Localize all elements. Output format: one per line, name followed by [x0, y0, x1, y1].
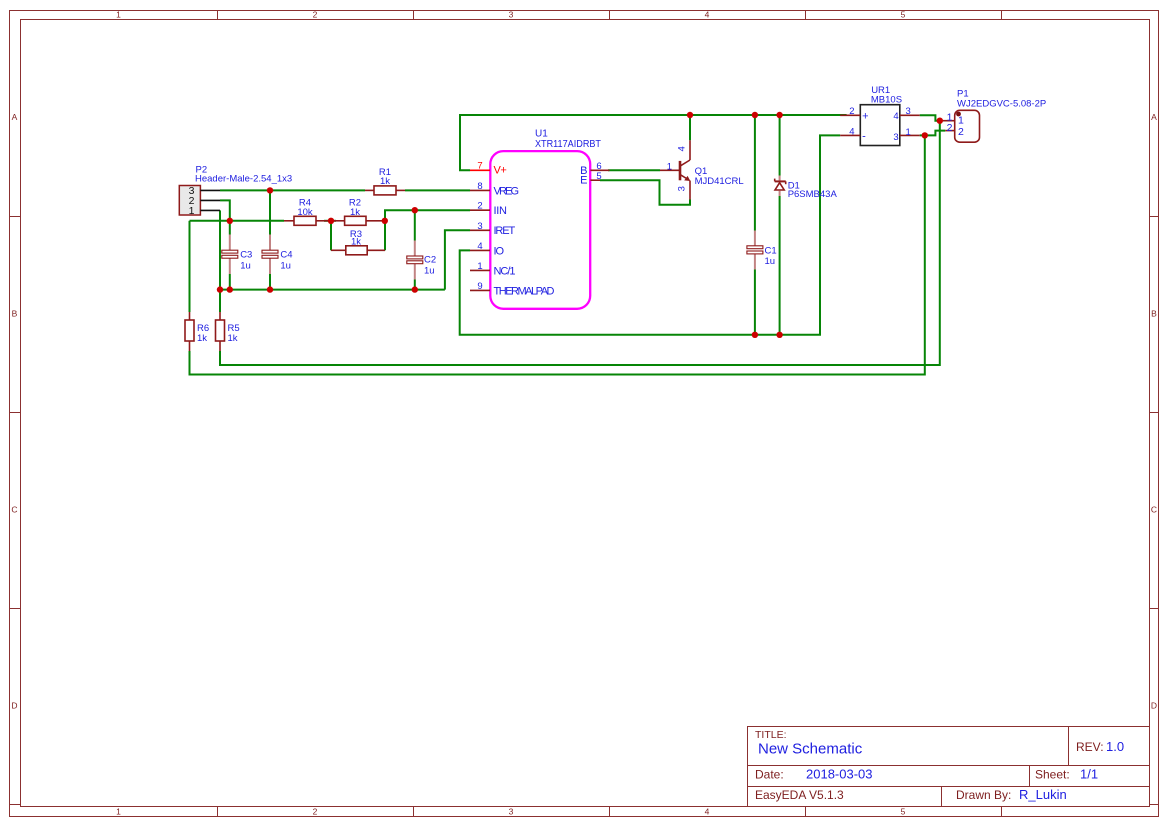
svg-text:1: 1 [116, 10, 121, 20]
svg-text:R_Lukin: R_Lukin [1019, 787, 1067, 802]
svg-text:3: 3 [477, 221, 482, 232]
svg-text:1k: 1k [350, 207, 360, 218]
svg-text:VREG: VREG [494, 185, 520, 197]
svg-text:4: 4 [893, 111, 898, 122]
svg-text:5: 5 [901, 10, 906, 20]
svg-text:C: C [1151, 505, 1157, 515]
svg-text:Date:: Date: [755, 768, 784, 782]
svg-text:EasyEDA V5.1.3: EasyEDA V5.1.3 [755, 788, 844, 802]
svg-text:7: 7 [477, 161, 482, 172]
svg-text:B: B [12, 309, 18, 319]
svg-text:-: - [862, 131, 866, 143]
svg-text:2: 2 [477, 201, 482, 212]
svg-text:10k: 10k [297, 207, 313, 218]
svg-text:C4: C4 [280, 250, 292, 261]
svg-text:1u: 1u [424, 265, 435, 276]
svg-text:8: 8 [477, 181, 482, 192]
svg-text:1u: 1u [765, 256, 776, 267]
svg-text:4: 4 [705, 10, 710, 20]
svg-text:TITLE:: TITLE: [755, 729, 787, 741]
svg-text:IO: IO [494, 245, 505, 257]
svg-text:2: 2 [947, 122, 953, 134]
svg-text:MB10S: MB10S [871, 94, 902, 105]
svg-text:New Schematic: New Schematic [758, 741, 863, 758]
svg-text:3: 3 [509, 807, 514, 817]
svg-text:XTR117AIDRBT: XTR117AIDRBT [535, 139, 601, 150]
svg-text:3: 3 [509, 10, 514, 20]
svg-text:U1: U1 [535, 128, 548, 139]
svg-text:1k: 1k [197, 333, 207, 344]
svg-text:1: 1 [667, 162, 672, 173]
svg-text:1k: 1k [228, 333, 238, 344]
svg-text:+: + [862, 110, 868, 122]
svg-text:4: 4 [849, 127, 854, 138]
svg-text:1/1: 1/1 [1080, 767, 1098, 782]
svg-text:E: E [580, 175, 587, 187]
svg-text:4: 4 [676, 146, 687, 151]
svg-text:2: 2 [313, 10, 318, 20]
svg-text:IIN: IIN [494, 205, 508, 217]
svg-text:2: 2 [958, 126, 964, 138]
svg-text:Header-Male-2.54_1x3: Header-Male-2.54_1x3 [195, 174, 292, 185]
svg-text:1k: 1k [380, 176, 390, 187]
svg-text:2018-03-03: 2018-03-03 [806, 767, 873, 782]
svg-text:1u: 1u [240, 260, 251, 271]
svg-text:C1: C1 [765, 245, 777, 256]
svg-text:2: 2 [313, 807, 318, 817]
svg-text:D: D [11, 701, 17, 711]
svg-text:A: A [12, 112, 18, 122]
svg-text:1: 1 [958, 115, 964, 127]
svg-text:A: A [1151, 112, 1157, 122]
svg-text:1: 1 [477, 261, 482, 272]
svg-text:IRET: IRET [494, 225, 516, 237]
svg-text:4: 4 [705, 807, 710, 817]
svg-text:5: 5 [596, 171, 601, 182]
svg-text:C3: C3 [240, 250, 252, 261]
svg-text:1.0: 1.0 [1106, 739, 1124, 754]
svg-text:1k: 1k [351, 237, 361, 248]
svg-text:2: 2 [849, 106, 854, 117]
svg-text:3: 3 [676, 186, 687, 191]
svg-text:REV:: REV: [1076, 740, 1104, 754]
svg-text:3: 3 [906, 106, 911, 117]
svg-text:MJD41CRL: MJD41CRL [695, 176, 744, 187]
svg-text:1u: 1u [280, 260, 291, 271]
svg-text:4: 4 [477, 241, 482, 252]
svg-text:C: C [11, 505, 17, 515]
svg-text:D: D [1151, 701, 1157, 711]
svg-text:NC/1: NC/1 [494, 265, 516, 277]
svg-text:3: 3 [893, 132, 898, 143]
svg-text:Drawn By:: Drawn By: [956, 788, 1011, 802]
svg-text:1: 1 [116, 807, 121, 817]
svg-text:P6SMB43A: P6SMB43A [788, 189, 838, 200]
svg-text:V+: V+ [494, 165, 507, 177]
svg-text:1: 1 [189, 205, 195, 217]
svg-text:1: 1 [906, 127, 911, 138]
svg-text:C2: C2 [424, 255, 436, 266]
svg-text:WJ2EDGVC-5.08-2P: WJ2EDGVC-5.08-2P [957, 99, 1046, 110]
svg-text:Sheet:: Sheet: [1035, 768, 1070, 782]
svg-text:9: 9 [477, 281, 482, 292]
svg-text:5: 5 [901, 807, 906, 817]
svg-text:B: B [1151, 309, 1157, 319]
svg-text:THERMALPAD: THERMALPAD [494, 285, 555, 297]
